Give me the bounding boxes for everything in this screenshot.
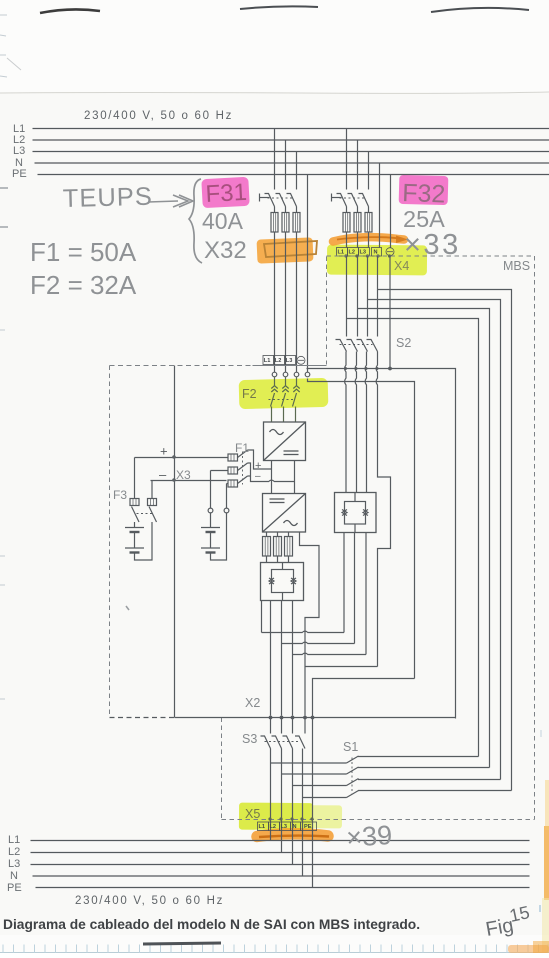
SSW2 outer box: [261, 563, 304, 601]
battery1 cell2 short: [130, 551, 140, 553]
wire L1 tap to F32: [346, 129, 348, 190]
wire S1 in3: [358, 779, 501, 781]
fuse F32 L2: [354, 213, 361, 233]
wire circle to cells: [210, 513, 212, 528]
junction plus bus dot: [172, 455, 176, 459]
svg-text:L3: L3: [8, 858, 20, 870]
battery2 cell2 long: [201, 547, 220, 549]
wire fuse2 to SSW2: [277, 556, 279, 563]
junction minus bus dot: [172, 478, 176, 482]
terminal X2 dot2: [280, 716, 284, 720]
wire bus PE bottom: [36, 887, 530, 889]
left pencil ticks: [0, 187, 8, 189]
wire pole1 to fuse: [274, 207, 276, 213]
battery1 cell1 short: [130, 531, 140, 533]
inverter box: [263, 494, 306, 533]
wire branch L2 to bypass: [358, 309, 490, 768]
wire X2 to S3 pole3: [292, 715, 294, 733]
wire pole2 to fuse: [357, 207, 359, 213]
switch F3 linkage: [137, 513, 153, 515]
SSW2 thyristor right: [291, 578, 296, 584]
breaker F31 blade pole3: [287, 194, 297, 207]
SSW2 bottom stub: [282, 593, 284, 601]
svg-text:X32: X32: [204, 237, 247, 264]
wire plus bus: [135, 457, 229, 459]
highlighter yellow X5 patch: [239, 803, 342, 831]
svg-text:PE: PE: [7, 882, 22, 894]
breaker F32 linkage: [340, 197, 366, 199]
terminal X2 dot5 PE: [311, 716, 315, 720]
switch S2 blade2: [347, 340, 358, 352]
svg-text:15: 15: [508, 902, 532, 926]
svg-text:L3: L3: [13, 145, 25, 157]
fuse inv L1: [263, 537, 271, 557]
wire PE to X5: [313, 679, 415, 888]
SSW1 out1: [343, 533, 345, 633]
rectifier box: [264, 422, 306, 461]
wire X4 N down to S2: [377, 256, 379, 337]
rail S1 pole1: [271, 762, 347, 764]
wire PE X4 down: [389, 256, 391, 369]
svg-text:F2: F2: [242, 387, 257, 401]
svg-text:L2: L2: [270, 824, 277, 830]
SSW2 thyristor left: [269, 578, 274, 584]
svg-text:X2: X2: [245, 696, 260, 710]
wire F1 pole1 to inverter plus: [248, 450, 272, 469]
breaker F2 linkage: [269, 399, 296, 401]
fuse F3 pole1: [130, 499, 139, 506]
terminal X2 dot1: [269, 716, 273, 720]
rectifier DC sign: [284, 450, 299, 452]
wire inv out3: [288, 532, 290, 537]
svg-text:PE: PE: [304, 824, 312, 830]
terminal X5 box N: [291, 822, 301, 831]
junction dots X4 dashed line: [344, 254, 391, 257]
faint scan line: [0, 92, 549, 93]
battery1 mid wire: [134, 532, 136, 548]
battery1 cell2 long: [125, 547, 144, 549]
svg-text:L1: L1: [259, 824, 266, 830]
wire minus bus: [151, 480, 227, 482]
terminal earth symbol: [297, 356, 305, 364]
wire inv out2: [277, 532, 279, 537]
wire L2 tap to F32: [357, 140, 359, 190]
junction dots X5 dashed line: [268, 817, 313, 820]
wire S1 in2: [358, 767, 490, 769]
wire inverter neutral out: [300, 532, 320, 715]
switch S2 linkage: [340, 344, 373, 346]
wire F2 out2: [283, 407, 285, 423]
switch F3 blade1: [132, 507, 140, 523]
terminal X2 dot3: [291, 716, 295, 720]
svg-text:S1: S1: [343, 740, 358, 754]
switch F1 blade2: [238, 463, 248, 471]
wire S3 out2 to X5: [281, 749, 283, 853]
svg-text:MBS: MBS: [503, 259, 530, 273]
wire battery2 plus: [210, 471, 212, 509]
terminal box L3: [285, 356, 296, 365]
wire merge L1: [262, 631, 345, 632]
wire S2 out1 to SSW: [345, 352, 346, 493]
wire merge N: [305, 666, 378, 668]
switch S3 blade4: [295, 736, 305, 749]
wire circle to contacts1: [274, 377, 276, 386]
wire S1 in1: [358, 756, 479, 758]
breaker F31 actuator tick: [260, 197, 270, 199]
fuse F31 L2: [282, 213, 289, 233]
svg-text:N: N: [10, 870, 18, 882]
wire X4 L2 down to S2: [357, 256, 359, 337]
junction dots on S2 wires: [344, 367, 347, 370]
fuse inv L2: [274, 537, 282, 557]
annotation arrow: [148, 195, 193, 207]
UPS box top edge: [110, 365, 253, 367]
svg-text:L1: L1: [338, 250, 345, 256]
svg-text:230/400 V, 50 o 60 Hz: 230/400 V, 50 o 60 Hz: [75, 895, 224, 907]
wire PE tap left: [307, 175, 309, 373]
breaker F32 blade pole1: [337, 194, 347, 207]
rectifier diagonal: [264, 422, 306, 461]
orange pen trapezoid outline X32: [264, 241, 317, 257]
svg-text:F2 = 32A: F2 = 32A: [30, 270, 137, 300]
MBS box right edge: [534, 256, 536, 820]
orange pen core line X39: [259, 836, 329, 837]
right edge yellow smudge: [542, 898, 549, 953]
SSW1 thyristor left: [342, 510, 347, 516]
wire bus PE top: [38, 174, 549, 176]
wire merge L3: [293, 653, 367, 654]
rectifier AC sign: [270, 430, 284, 435]
svg-text:40A: 40A: [202, 208, 244, 234]
wire X4 L3 down to S2: [367, 256, 369, 337]
wire branch N to bypass: [378, 290, 512, 791]
svg-text:Diagrama de cableado del model: Diagrama de cableado del modelo N de SAI…: [3, 917, 420, 932]
svg-text:X5: X5: [245, 807, 260, 821]
binder mark 2: [240, 6, 318, 9]
inverter AC sign: [284, 521, 298, 526]
terminal circle PE: [305, 372, 310, 377]
binder mark 1: [40, 9, 100, 13]
switch F1 blade1: [238, 450, 248, 458]
switch S3 linkage: [265, 741, 301, 743]
highlighter orange strip X39 terminal: [257, 834, 328, 837]
wire bus L2 bottom: [31, 852, 530, 854]
svg-text:L3: L3: [286, 358, 293, 364]
switch S3 blade2: [272, 736, 282, 749]
inverter DC sign: [270, 498, 285, 500]
breaker F2 blade2: [282, 393, 286, 407]
switch S2 blade1: [336, 340, 347, 352]
wire bus L2 top: [33, 139, 549, 141]
breaker F2 blade3: [293, 393, 297, 407]
terminal X4 box L3: [359, 248, 370, 257]
switch S1 blade3: [347, 779, 359, 786]
terminal X2 dot4: [303, 716, 307, 720]
wire inv out1: [266, 532, 268, 537]
wire battery2 plus feed: [211, 470, 229, 472]
highlighter yellow X4 patch: [327, 245, 427, 276]
breaker F32 blade pole3: [359, 194, 369, 207]
wire L3 tap to F31: [296, 152, 298, 190]
highlighter yellow F2 patch: [239, 378, 329, 409]
breaker F31 blade pole1: [265, 194, 275, 207]
wire pole3 to fuse: [296, 207, 298, 213]
svg-text:F31: F31: [205, 179, 248, 208]
terminal X5 box L1: [258, 822, 269, 831]
switch S1 blade4: [347, 791, 359, 798]
fuse F31 L3: [293, 213, 300, 233]
right edge blue tick: [539, 905, 541, 912]
switch F1 blade3: [238, 476, 248, 484]
wire bus L1 bottom: [31, 840, 530, 842]
wire fuse3 to SSW2: [288, 556, 290, 563]
SSW1 bottom stub: [354, 524, 356, 533]
switch S1 linkage: [351, 758, 353, 795]
terminal X4 earth symbol: [386, 248, 394, 256]
svg-text:–: –: [159, 467, 167, 482]
wire L1 tap to F31: [274, 129, 276, 190]
svg-text:S3: S3: [242, 732, 257, 746]
terminal X5 box L2: [269, 822, 280, 831]
wire bus L3 bottom: [31, 864, 530, 866]
battery1 cell1 long: [125, 527, 144, 529]
fuse F1 pole3: [228, 480, 238, 487]
binder mark 3: [431, 8, 529, 12]
faint diagonal scratch: [7, 58, 21, 70]
wire S2 out2 to SSW: [355, 352, 356, 493]
MBS box bottom edge: [222, 819, 535, 821]
wire N tap to X4: [379, 163, 381, 248]
terminal circle L2: [283, 372, 288, 377]
rail S1 pole3: [293, 785, 347, 787]
wire F2 out1: [271, 407, 273, 423]
wire L2 fuse to X4: [357, 232, 359, 248]
svg-text:N: N: [293, 824, 297, 830]
highlighter orange strip X33 terminal: [333, 237, 404, 241]
battery2 cell1 long: [201, 527, 220, 529]
battery2 cell2 short: [206, 551, 216, 553]
wire bus N top: [35, 162, 549, 164]
svg-text:L2: L2: [275, 358, 282, 364]
wire SSW2 corner out: [261, 601, 263, 633]
wire merge L2: [282, 642, 355, 643]
wire S2 out4 (N) jog around SSW1: [376, 352, 390, 667]
pencil speck: [126, 606, 129, 610]
switch S3 blade1: [261, 736, 271, 749]
wire SSW2 out3: [292, 601, 294, 716]
SSW2 inner box: [272, 570, 294, 593]
wire F2 out3: [295, 407, 297, 423]
orange pen core line X33: [337, 237, 400, 239]
rail S1 pole2: [282, 773, 347, 775]
wire bus L1 top: [33, 128, 549, 130]
wire branch L3 to bypass: [368, 300, 501, 780]
svg-text:F1 = 50A: F1 = 50A: [30, 237, 137, 267]
switch F1 linkage: [242, 452, 244, 485]
svg-text:–: –: [255, 471, 261, 482]
terminal circle L3: [294, 372, 299, 377]
connector circle plus: [208, 508, 213, 513]
MBS box left edge: [326, 257, 328, 365]
wire battery2 minus feed: [227, 483, 229, 485]
wire S3 out3 to X5: [292, 749, 294, 865]
wire X2 to S3 pole1: [270, 715, 272, 733]
wire PE link lower: [308, 379, 415, 679]
breaker F2 contacts pole2: [282, 386, 288, 392]
terminal X4 box N: [372, 248, 382, 257]
wire long vertical: [174, 366, 176, 718]
breaker F32 actuator tick: [332, 197, 342, 199]
switch S1 blade1: [347, 756, 359, 763]
rail S1 pole4: [303, 797, 347, 799]
wire S2 out3 to SSW: [365, 352, 366, 493]
wire blade1 to battery: [134, 522, 136, 528]
switch S1 blade2: [347, 767, 359, 774]
breaker F2 contacts pole1: [271, 386, 277, 392]
svg-text:+: +: [160, 444, 168, 459]
dark smudge bottom: [143, 943, 221, 944]
fuse F31 L1: [271, 213, 278, 233]
svg-text:N: N: [374, 250, 378, 256]
wire PE link to right: [307, 369, 456, 719]
svg-text:L2: L2: [349, 250, 356, 256]
breaker F32 blade pole2: [348, 194, 358, 207]
connector circle minus: [224, 508, 229, 513]
wire circle to contacts2: [285, 377, 287, 386]
wire F1 pole2 to inverter minus: [248, 463, 295, 482]
wire L1 fuse to X4: [346, 232, 348, 248]
svg-text:S2: S2: [396, 336, 411, 350]
breaker F31 linkage: [268, 197, 294, 199]
svg-text:L3: L3: [360, 250, 367, 256]
wire circle to contacts3: [296, 377, 298, 386]
wire pole2 to fuse: [285, 207, 287, 213]
MBS lower-left dashed edge: [221, 718, 223, 820]
terminal X4 box L2: [348, 248, 359, 257]
svg-text:230/400 V, 50 o 60 Hz: 230/400 V, 50 o 60 Hz: [84, 110, 233, 122]
MBS box top edge: [327, 255, 535, 257]
wire X2 to S3 pole2: [281, 715, 283, 733]
wire S1 in4: [358, 790, 512, 792]
wire X2 to S3 pole4: [304, 715, 306, 733]
wire F1 pole3 stub: [248, 475, 251, 477]
wire L3 tap to F32: [368, 152, 370, 190]
annotation brace: [189, 179, 202, 263]
SSW1 out2: [354, 533, 356, 644]
breaker F31 blade pole2: [276, 194, 286, 207]
wire bus L3 top: [33, 151, 549, 153]
SSW1 thyristor right: [363, 510, 368, 516]
junction PE dot: [388, 367, 392, 371]
svg-text:L3: L3: [281, 824, 288, 830]
svg-text:F3: F3: [113, 488, 127, 502]
battery2 cell1 short: [206, 531, 216, 533]
svg-text:L1: L1: [8, 834, 20, 846]
fuse inv L3: [285, 537, 293, 557]
wire SSW2 out2: [281, 601, 283, 716]
SSW1 top stub: [354, 493, 356, 502]
wire SSW2 out1: [270, 601, 272, 716]
switch S2 blade3: [357, 340, 368, 352]
wire pole1 to fuse: [346, 207, 348, 213]
SSW1 out3: [365, 533, 367, 655]
inverter diagonal: [263, 494, 306, 533]
svg-text:TEUPS: TEUPS: [62, 183, 153, 213]
wire DC minus vertical: [294, 461, 296, 494]
bottom-right orange blob: [508, 945, 549, 953]
wire bus N bottom: [33, 875, 530, 877]
right edge orange smear: [544, 826, 549, 900]
terminal X5 box L3: [280, 822, 291, 831]
fuse F32 L1: [343, 213, 350, 233]
battery1 return wire: [135, 522, 153, 560]
switch S2 blade4: [367, 340, 378, 352]
terminal box L2: [274, 356, 285, 365]
svg-text:X3: X3: [176, 468, 191, 482]
highlighter pink F31 patch: [201, 177, 249, 208]
breaker F2 blade1: [271, 393, 275, 407]
wire circle minus up: [226, 484, 228, 509]
terminal X5 box PE: [301, 822, 317, 831]
svg-text:×39: ×39: [345, 820, 393, 853]
wire S3 out4 to X5: [302, 749, 304, 877]
highlighter pink F32 patch: [399, 175, 449, 205]
wire pole3 to fuse: [368, 207, 370, 213]
wire L2 fuse to terminal: [285, 232, 287, 372]
wire L1 fuse to terminal: [274, 232, 276, 372]
wire branch L1 to bypass: [347, 319, 479, 757]
left edge ticks: [0, 15, 7, 699]
svg-text:X4: X4: [394, 259, 409, 273]
terminal X4 box L1: [337, 248, 348, 257]
switch S3 blade3: [283, 736, 293, 749]
wire output bus bottom: [175, 717, 456, 719]
svg-text:F1: F1: [235, 441, 249, 455]
highlighter orange strip X32 terminal: [257, 237, 314, 263]
wire DC plus vertical: [271, 461, 273, 494]
wire plus bus to F3: [134, 458, 136, 499]
svg-text:L1: L1: [264, 358, 271, 364]
SSW1 inner box: [345, 502, 366, 525]
SSW1 outer box: [335, 493, 377, 533]
wire PE tap to X4: [390, 175, 392, 248]
breaker F2 contacts pole3: [293, 386, 299, 392]
svg-text:F32: F32: [402, 179, 446, 208]
battery2 return wire: [211, 513, 227, 560]
SSW2 top stub: [282, 563, 284, 570]
wire S3 out1 to X5: [270, 749, 272, 841]
wire minus bus to F3: [151, 481, 153, 499]
fuse F3 pole2: [148, 499, 157, 506]
svg-text:L2: L2: [8, 846, 20, 858]
wire L3 fuse to X4: [368, 232, 370, 248]
terminal box L1: [263, 356, 274, 365]
battery2 mid wire: [210, 532, 212, 548]
wire X4 L1 down to S2: [346, 256, 348, 337]
fuse F1 pole2: [228, 467, 238, 474]
UPS box left edge: [109, 366, 111, 718]
fuse F32 L3: [365, 213, 372, 233]
svg-text:PE: PE: [12, 168, 27, 180]
terminal circle L1: [272, 372, 277, 377]
svg-text:×33: ×33: [404, 229, 461, 261]
wire fuse1 to SSW2: [266, 556, 268, 563]
wire L2 tap to F31: [285, 140, 287, 190]
wire L3 fuse to terminal: [296, 232, 298, 372]
fuse F1 pole1: [228, 454, 238, 461]
switch F3 blade2: [149, 507, 157, 523]
